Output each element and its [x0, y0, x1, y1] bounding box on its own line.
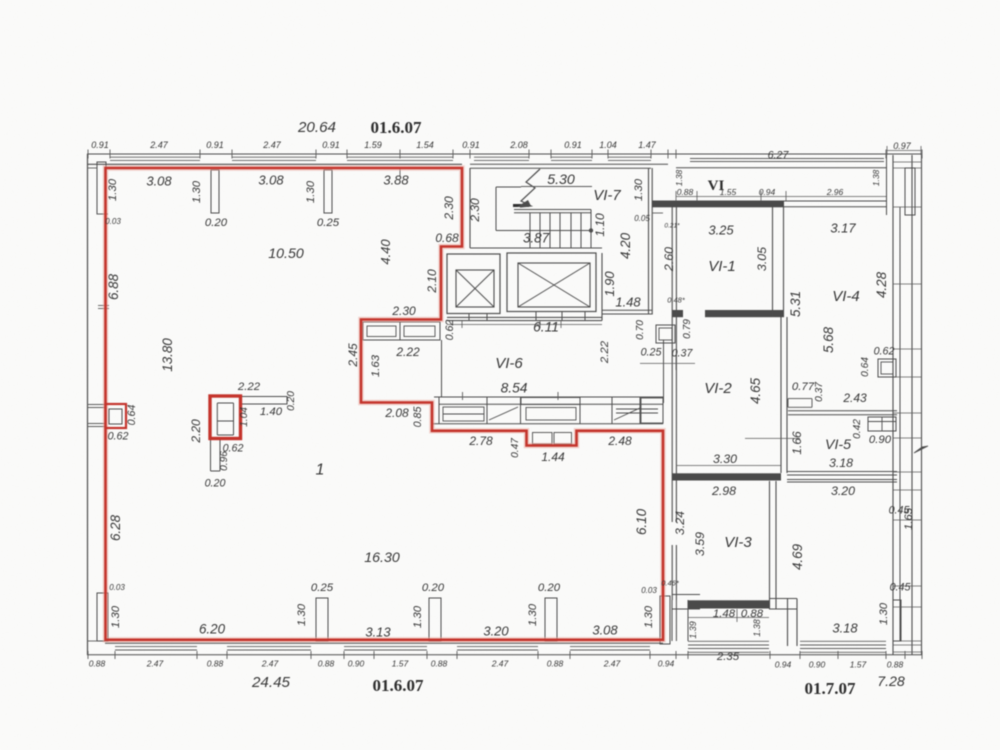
svg-text:VI-6: VI-6: [495, 355, 523, 372]
wall: VI-7 top inner line: [470, 167, 651, 169]
duct big cell inner rect: [526, 408, 576, 421]
svg-text:1.39: 1.39: [688, 621, 698, 639]
svg-text:20.64: 20.64: [297, 119, 336, 136]
red outline halo: [106, 168, 664, 640]
svg-text:0.45: 0.45: [890, 582, 911, 594]
svg-text:0.05: 0.05: [634, 214, 650, 223]
svg-text:VI-5: VI-5: [825, 437, 851, 453]
svg-text:0.64: 0.64: [860, 357, 871, 377]
wall: top band inner line right section: [676, 167, 886, 169]
wall: stairwell left: [469, 168, 471, 248]
svg-text:1.04: 1.04: [239, 407, 250, 427]
wall band: VI-3 south (dark): [688, 600, 769, 608]
svg-text:3.17: 3.17: [830, 220, 856, 235]
svg-text:0.62: 0.62: [874, 346, 895, 358]
elevator car left: [456, 270, 494, 307]
entry door leaf box 1: [533, 433, 553, 445]
svg-text:1.30: 1.30: [878, 602, 890, 625]
svg-text:1.30: 1.30: [643, 605, 655, 628]
svg-text:2.43: 2.43: [842, 391, 867, 405]
svg-text:1.38: 1.38: [871, 169, 881, 186]
wall: left exterior: [87, 154, 89, 655]
svg-text:4.28: 4.28: [874, 271, 889, 298]
svg-text:3.08: 3.08: [592, 622, 618, 637]
duct big cell top rect: [521, 398, 580, 405]
svg-text:3.87: 3.87: [523, 231, 550, 246]
svg-text:2.47: 2.47: [603, 659, 621, 669]
tick 0.05: [652, 212, 663, 214]
window mullion stub bottom 3: [545, 598, 557, 641]
svg-text:0.20: 0.20: [286, 391, 297, 411]
svg-text:0.88: 0.88: [547, 659, 564, 669]
stairs: treads: [529, 213, 531, 248]
tick 6.88 end: [98, 305, 109, 307]
dim line 6.11: [447, 324, 602, 326]
svg-text:1: 1: [316, 461, 325, 478]
wall: stair hall floor line: [470, 247, 602, 249]
svg-text:01.6.07: 01.6.07: [371, 118, 423, 137]
ticks bottom band: [87, 651, 89, 659]
svg-text:2.22: 2.22: [599, 340, 611, 364]
ticks 8.54: [462, 392, 464, 400]
duct box VI-5 corner 0.77: [788, 398, 812, 400]
svg-text:6.10: 6.10: [634, 508, 649, 535]
svg-text:2.98: 2.98: [711, 484, 736, 498]
svg-text:0.03: 0.03: [105, 217, 121, 226]
svg-text:0.20: 0.20: [538, 582, 561, 594]
svg-text:13.80: 13.80: [160, 338, 175, 372]
stairs: dark tread mark: [513, 204, 529, 207]
svg-text:5.30: 5.30: [547, 172, 575, 188]
svg-text:1.30: 1.30: [191, 180, 203, 203]
svg-text:1.30: 1.30: [296, 603, 308, 626]
red bump on left wall: [106, 404, 127, 428]
svg-text:0.25: 0.25: [311, 582, 334, 594]
window glazing line top: [110, 156, 200, 158]
svg-text:1.10: 1.10: [593, 213, 607, 237]
svg-text:0.20: 0.20: [205, 478, 226, 490]
svg-text:0.47: 0.47: [510, 438, 521, 458]
svg-text:1.55: 1.55: [720, 187, 737, 197]
svg-text:0.94: 0.94: [759, 187, 776, 197]
duct inner left: [367, 326, 396, 337]
red pilaster box: [210, 396, 241, 439]
wall corner VI-3 sw1: [672, 594, 700, 596]
svg-text:2.45: 2.45: [346, 343, 360, 368]
wall band: VI-1 north (dark): [652, 201, 784, 208]
svg-text:2.35: 2.35: [716, 651, 740, 663]
duct right end cell: [641, 398, 663, 423]
svg-text:0.68: 0.68: [435, 231, 459, 245]
svg-text:3.18: 3.18: [832, 620, 858, 635]
wall: VI-5 north line1: [788, 410, 897, 412]
wall: below elevators line2: [447, 320, 602, 322]
wall: below elevators line1: [447, 316, 602, 318]
svg-text:3.08: 3.08: [146, 173, 172, 188]
svg-text:1.30: 1.30: [527, 603, 539, 626]
svg-text:2.08: 2.08: [384, 406, 409, 420]
dim line 0.25/0.37: [640, 362, 695, 364]
wall: right exterior outer line: [921, 155, 923, 655]
wall: VI-3 left lower inner: [671, 545, 673, 600]
svg-text:1.38: 1.38: [674, 169, 684, 186]
window mullion stub bottom 1: [316, 598, 328, 641]
duct box VI-5 right 0.42: [868, 417, 896, 431]
wall band VI-6 south top line: [434, 396, 663, 398]
svg-text:2.47: 2.47: [491, 659, 509, 669]
svg-text:4.69: 4.69: [790, 543, 805, 570]
wall piece left of band: [687, 600, 689, 641]
svg-text:1.40: 1.40: [260, 406, 283, 418]
wall: VI-3 left lower outer: [675, 545, 677, 600]
svg-text:0.20: 0.20: [422, 582, 445, 594]
svg-text:1.48: 1.48: [615, 294, 641, 309]
duct box right wall 0.62: [878, 359, 896, 377]
wall: top exterior outer line: [87, 153, 922, 155]
wall: elevator block right ledge2: [602, 313, 652, 315]
svg-text:0.88: 0.88: [318, 659, 335, 669]
svg-text:2.47: 2.47: [261, 659, 279, 669]
svg-text:5.68: 5.68: [821, 326, 836, 353]
svg-text:2.96: 2.96: [826, 187, 844, 197]
svg-text:1.59: 1.59: [364, 140, 382, 150]
window lines in left wall at notch: [87, 404, 105, 406]
svg-text:1.47: 1.47: [638, 140, 657, 150]
stairs: upper rail: [514, 209, 591, 211]
svg-text:0.79: 0.79: [682, 319, 693, 339]
svg-text:0.96: 0.96: [219, 451, 230, 471]
svg-text:0.91: 0.91: [206, 140, 224, 150]
svg-text:1.63: 1.63: [370, 354, 382, 377]
red outline apartment 1 boundary: [106, 168, 664, 640]
svg-text:0.88: 0.88: [207, 659, 224, 669]
svg-text:1.48: 1.48: [713, 608, 736, 620]
svg-text:3.13: 3.13: [365, 624, 391, 639]
svg-text:01.6.07: 01.6.07: [373, 676, 425, 695]
svg-text:0.03: 0.03: [109, 583, 125, 592]
elevator shaft left outer: [447, 254, 500, 314]
svg-text:1.57: 1.57: [392, 659, 409, 669]
svg-text:2.10: 2.10: [425, 269, 439, 294]
svg-text:0.91: 0.91: [564, 140, 582, 150]
svg-text:0.88: 0.88: [741, 608, 764, 620]
svg-text:3.25: 3.25: [708, 222, 734, 237]
window glazing line top: [232, 156, 316, 158]
stairs: landing outline: [495, 187, 497, 231]
stairs: dim dot: [589, 228, 593, 232]
svg-text:1.54: 1.54: [416, 140, 434, 150]
svg-text:0.88: 0.88: [887, 660, 904, 670]
lines below pilaster 0.96: [210, 439, 212, 472]
wall: VI-1/VI-4 inner: [772, 207, 774, 317]
svg-text:3.20: 3.20: [831, 484, 855, 498]
svg-text:0.77: 0.77: [792, 381, 815, 393]
wall: corridor left below shaft: [663, 340, 665, 403]
wall: VI-5 north line2: [788, 414, 897, 416]
duct band VI-6 upper: [363, 322, 440, 340]
svg-text:7.28: 7.28: [877, 674, 905, 690]
wall band VI-6 south second line: [439, 403, 663, 405]
wall: right of elevator shaft: [601, 253, 603, 321]
leader 1.66: [745, 437, 800, 439]
svg-text:0.70: 0.70: [635, 320, 646, 340]
svg-text:0.85: 0.85: [412, 407, 424, 428]
svg-text:3.24: 3.24: [673, 511, 687, 535]
tick stub bottom: [97, 213, 108, 215]
svg-text:3.08: 3.08: [258, 172, 284, 187]
svg-text:3.05: 3.05: [755, 247, 769, 271]
svg-text:1.44: 1.44: [541, 450, 565, 464]
svg-text:0.25: 0.25: [317, 217, 340, 229]
wall: bottom band inner line: [105, 642, 663, 644]
wall: VI-2/VI-4 inner: [780, 317, 782, 473]
thin wall bar 1.40: [240, 397, 287, 405]
window mullion stub bottom 2: [429, 598, 441, 641]
dim line 1.48/0.88: [688, 617, 769, 619]
dimension ticks top band: [87, 150, 89, 159]
svg-text:2.30: 2.30: [442, 196, 456, 221]
svg-text:24.45: 24.45: [251, 674, 291, 691]
svg-text:2.47: 2.47: [149, 140, 169, 150]
svg-text:0.90: 0.90: [348, 659, 365, 669]
entry door leaf box 2: [554, 433, 572, 445]
wall: VI-1/VI-4 outer: [783, 207, 785, 317]
svg-text:2.60: 2.60: [662, 247, 676, 272]
wall band: VI-1 south left piece: [672, 310, 683, 317]
svg-text:0.97: 0.97: [893, 141, 912, 151]
svg-text:0.90: 0.90: [809, 660, 826, 670]
window glazing line bottom: [570, 646, 650, 648]
tick: [87, 640, 97, 642]
wall: top band inner line: [87, 163, 462, 165]
svg-text:2.47: 2.47: [146, 659, 164, 669]
wall: VI-3 right inner: [769, 481, 771, 609]
svg-text:0.62: 0.62: [444, 320, 456, 341]
svg-text:0.91: 0.91: [322, 140, 340, 150]
dim line inner top row: [676, 196, 886, 198]
wall stub below top wall 1: [211, 170, 219, 213]
band vertical dividers: [438, 397, 440, 424]
svg-text:0.20: 0.20: [205, 217, 228, 229]
svg-text:3.30: 3.30: [713, 452, 737, 466]
svg-text:0.37: 0.37: [672, 348, 694, 360]
window glazing line bottom: [457, 646, 538, 648]
shaft box between VI-7 and VI-1: [656, 325, 675, 343]
svg-text:VI-7: VI-7: [593, 187, 621, 204]
svg-text:VI-3: VI-3: [724, 534, 752, 551]
right wall ticks: [893, 161, 922, 163]
pilaster inner black lines: [216, 403, 218, 435]
svg-text:5.31: 5.31: [788, 291, 803, 317]
svg-text:2.30: 2.30: [468, 198, 482, 223]
elevator shaft right outer: [507, 253, 596, 312]
tick: [87, 167, 97, 169]
window pier stub bottom-left: [97, 593, 108, 641]
right wall arrow mark: [914, 446, 928, 453]
window glazing line top: [347, 156, 453, 158]
wall: right exterior inner line: [892, 155, 894, 655]
svg-text:0.25: 0.25: [641, 347, 662, 359]
wall: right exterior second line: [899, 207, 901, 641]
svg-text:4.40: 4.40: [378, 239, 393, 265]
svg-text:0.48*: 0.48*: [667, 296, 686, 305]
svg-text:1.30: 1.30: [107, 178, 119, 201]
svg-text:4.20: 4.20: [618, 232, 633, 259]
window glazing line bottom: [227, 646, 311, 648]
wall: bottom center inner: [787, 599, 789, 647]
duct cell diagonal: [489, 407, 518, 420]
dim line 5.30: [521, 186, 592, 188]
wall: VI-7 right inner: [648, 168, 650, 315]
svg-text:0.88: 0.88: [89, 659, 106, 669]
wall: right exterior third line: [911, 155, 913, 655]
wall: elevator block right ledge1: [602, 309, 652, 311]
wall: below VI-3 h2: [769, 608, 797, 610]
wall band VI-6 south bottom line: [432, 423, 663, 425]
svg-text:16.30: 16.30: [364, 550, 400, 566]
stairs: direction arrow zigzag: [520, 169, 540, 207]
svg-text:6.27: 6.27: [768, 150, 790, 162]
svg-text:2.22: 2.22: [395, 345, 420, 359]
wall band: VI-1 south right piece: [705, 310, 784, 317]
svg-text:0.88: 0.88: [677, 187, 694, 197]
inner box of left bump: [109, 409, 122, 424]
svg-text:0.94: 0.94: [658, 659, 675, 669]
window glazing line top: [551, 156, 592, 158]
svg-text:1.66: 1.66: [790, 431, 804, 455]
svg-text:0.21*: 0.21*: [664, 222, 680, 229]
wall: VI-7 right outer: [651, 168, 653, 315]
svg-text:1.30: 1.30: [305, 180, 317, 203]
svg-text:1.30: 1.30: [633, 178, 645, 201]
svg-text:8.54: 8.54: [501, 381, 528, 396]
wall corner VI-3 sw2: [672, 608, 700, 610]
svg-text:1.30: 1.30: [110, 605, 122, 628]
stairs: 3.87 dim line: [496, 230, 591, 232]
svg-text:4.65: 4.65: [748, 377, 763, 404]
wall: bottom exterior outer line: [87, 654, 922, 656]
wall: corridor exit left: [671, 600, 673, 641]
svg-text:01.7.07: 01.7.07: [805, 679, 857, 698]
window glazing line top right: [690, 158, 884, 160]
svg-text:2.47: 2.47: [262, 140, 282, 150]
window mullion stub bottom right corner: [660, 596, 670, 644]
svg-text:6.28: 6.28: [108, 514, 123, 541]
duct inner right: [404, 326, 435, 337]
svg-text:3.20: 3.20: [483, 623, 509, 638]
dim line 0.97: [887, 150, 921, 152]
svg-text:1.30: 1.30: [412, 605, 424, 628]
svg-text:0.90: 0.90: [869, 434, 892, 446]
stairs: lower rail: [514, 212, 591, 214]
wall: VI-1 VI-2 left outer: [675, 207, 677, 522]
wall: VI-5 south double band: [787, 471, 897, 473]
svg-text:0.46*: 0.46*: [661, 579, 680, 588]
svg-text:1.90: 1.90: [602, 271, 617, 297]
window stub right bottom: [893, 600, 901, 641]
wall band: VI-2/VI-3 (dark): [672, 473, 781, 480]
svg-text:2.48: 2.48: [607, 434, 632, 448]
svg-text:2.22: 2.22: [237, 381, 261, 393]
svg-text:6.11: 6.11: [533, 320, 559, 335]
window glazing line top: [608, 156, 651, 158]
svg-text:2.20: 2.20: [189, 419, 203, 444]
svg-text:0.91: 0.91: [462, 140, 480, 150]
wall: top band inner line stair section: [470, 163, 668, 165]
svg-text:3.59: 3.59: [693, 532, 707, 556]
svg-text:0.94: 0.94: [775, 660, 792, 670]
wall: corner block left edge: [886, 155, 888, 215]
svg-text:0.91: 0.91: [91, 140, 109, 150]
wall: bottom center outer: [796, 599, 798, 647]
window stub top-right corner: [905, 168, 915, 215]
wall: VI-6 pocket right edge: [441, 340, 443, 397]
svg-text:3.88: 3.88: [383, 172, 409, 187]
svg-text:0.62: 0.62: [108, 431, 129, 443]
dim line 3.30: [676, 465, 781, 467]
bottom window band under VI-3: [688, 640, 769, 642]
svg-text:0.37: 0.37: [814, 382, 825, 402]
bottom window band right 3.18: [800, 640, 886, 642]
elevator door ticks: [468, 314, 470, 321]
svg-text:0.64: 0.64: [126, 405, 138, 426]
wall: VI-2/VI-4 outer: [786, 317, 788, 473]
window glazing line bottom: [115, 646, 197, 648]
duct cell diagonal right: [614, 408, 640, 420]
svg-text:0.03: 0.03: [641, 586, 657, 595]
svg-text:1.65: 1.65: [903, 507, 915, 530]
svg-text:VI-2: VI-2: [704, 380, 732, 397]
wall: VI-4 north line1: [784, 200, 886, 202]
window glazing line top: [474, 156, 529, 158]
svg-text:VI-4: VI-4: [832, 288, 860, 305]
svg-text:6.88: 6.88: [106, 273, 121, 300]
duct cell inner rect left: [443, 407, 484, 421]
svg-text:VI-1: VI-1: [708, 258, 736, 275]
svg-text:0.42: 0.42: [852, 419, 863, 439]
svg-text:1.38: 1.38: [752, 619, 762, 637]
window glazing line bottom: [344, 646, 427, 648]
window pier stub top-left: [97, 162, 106, 214]
svg-text:10.50: 10.50: [268, 246, 304, 262]
svg-text:0.88: 0.88: [431, 659, 448, 669]
svg-text:2.08: 2.08: [509, 140, 528, 150]
svg-text:6.20: 6.20: [199, 622, 226, 637]
svg-text:1.04: 1.04: [599, 140, 617, 150]
tick at 3.88: [399, 168, 401, 176]
svg-text:2.78: 2.78: [468, 434, 493, 448]
wall: VI-4 north line2: [784, 206, 886, 208]
svg-text:1.57: 1.57: [850, 660, 867, 670]
svg-text:3.18: 3.18: [829, 456, 853, 470]
wall: corridor right / VI-1 VI-2 left inner: [671, 207, 673, 522]
wall: VI-3 right outer: [775, 481, 777, 609]
wall: below VI-3 h1: [769, 598, 797, 600]
elevator car right: [518, 263, 590, 307]
wall stub below top wall 2: [324, 170, 332, 213]
svg-text:2.30: 2.30: [391, 304, 416, 318]
